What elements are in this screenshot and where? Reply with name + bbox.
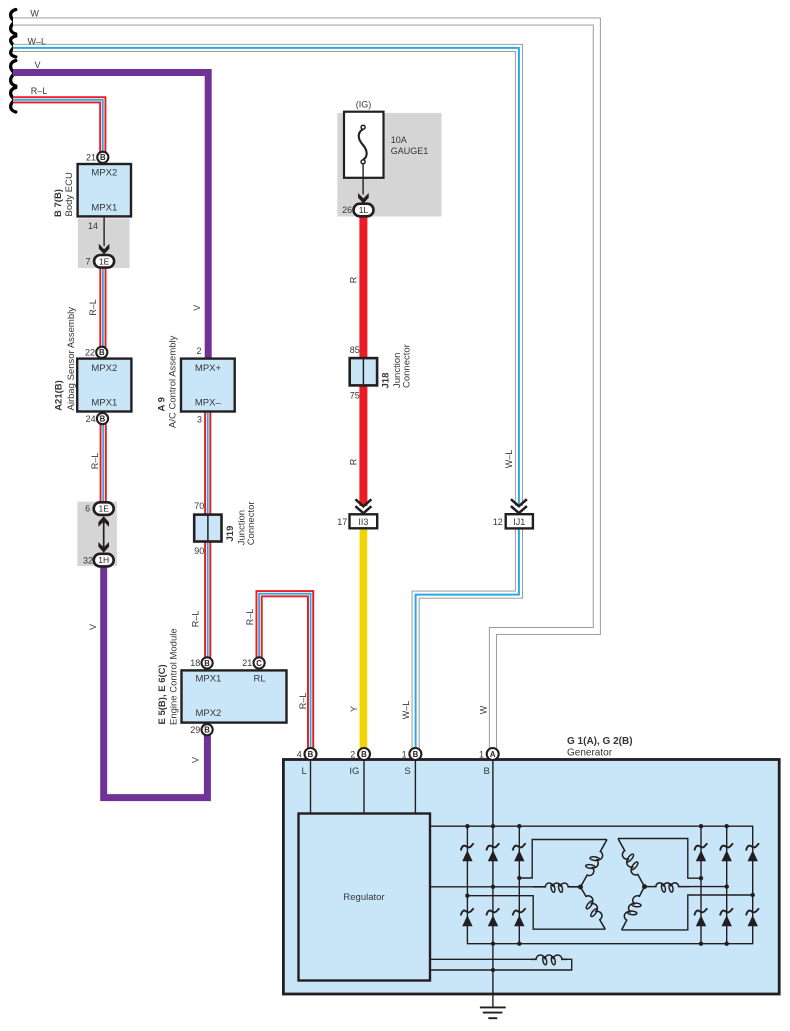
- svg-text:J19: J19: [225, 526, 236, 542]
- svg-text:E 5(B), E 6(C): E 5(B), E 6(C): [157, 664, 168, 724]
- svg-text:Airbag Sensor Assembly: Airbag Sensor Assembly: [66, 307, 77, 411]
- svg-text:10A: 10A: [391, 135, 407, 145]
- svg-text:7: 7: [85, 256, 90, 266]
- svg-text:A 9: A 9: [156, 397, 167, 411]
- svg-text:1E: 1E: [98, 504, 109, 514]
- svg-text:W: W: [479, 705, 489, 714]
- svg-text:24: 24: [86, 414, 96, 424]
- svg-text:IJ1: IJ1: [513, 517, 525, 527]
- svg-text:W–L: W–L: [28, 36, 47, 46]
- svg-text:1: 1: [479, 749, 484, 759]
- svg-text:J18: J18: [381, 373, 392, 389]
- svg-text:21: 21: [86, 153, 96, 163]
- svg-text:22: 22: [85, 348, 95, 358]
- svg-text:85: 85: [350, 345, 360, 355]
- svg-text:32: 32: [83, 555, 93, 565]
- svg-text:W–L: W–L: [401, 701, 411, 720]
- svg-text:A/C Control Assembly: A/C Control Assembly: [167, 335, 178, 428]
- svg-text:V: V: [34, 60, 40, 70]
- svg-text:MPX2: MPX2: [91, 168, 117, 179]
- svg-text:B: B: [100, 153, 106, 162]
- svg-text:1: 1: [402, 749, 407, 759]
- svg-text:MPX2: MPX2: [195, 708, 221, 719]
- svg-text:II3: II3: [358, 517, 368, 527]
- svg-text:Y: Y: [349, 706, 359, 712]
- svg-text:MPX1: MPX1: [91, 397, 117, 408]
- svg-text:R–L: R–L: [245, 609, 255, 626]
- svg-text:A: A: [490, 750, 496, 759]
- svg-text:Regulator: Regulator: [343, 892, 384, 903]
- svg-text:1L: 1L: [359, 205, 369, 215]
- svg-text:1E: 1E: [99, 256, 110, 266]
- svg-text:MPX1: MPX1: [91, 203, 117, 214]
- svg-text:MPX–: MPX–: [195, 397, 222, 408]
- svg-text:B: B: [100, 415, 106, 424]
- svg-text:W: W: [30, 9, 39, 19]
- svg-text:V: V: [192, 305, 202, 311]
- svg-text:18: 18: [190, 658, 200, 668]
- svg-text:4: 4: [297, 749, 302, 759]
- svg-text:G 1(A), G 2(B): G 1(A), G 2(B): [567, 736, 633, 747]
- svg-text:1H: 1H: [98, 555, 109, 565]
- svg-text:B: B: [308, 750, 314, 759]
- svg-text:R–L: R–L: [88, 299, 98, 316]
- svg-text:MPX+: MPX+: [195, 363, 222, 374]
- svg-text:B 7(B): B 7(B): [53, 189, 64, 217]
- svg-text:75: 75: [350, 390, 360, 400]
- svg-text:S: S: [404, 766, 410, 777]
- svg-text:17: 17: [337, 517, 347, 527]
- svg-text:14: 14: [88, 221, 98, 231]
- svg-text:Generator: Generator: [567, 748, 613, 759]
- svg-text:Engine Control Module: Engine Control Module: [169, 628, 180, 725]
- svg-text:A21(B): A21(B): [54, 380, 65, 411]
- svg-text:B: B: [484, 766, 490, 777]
- svg-text:Body ECU: Body ECU: [64, 172, 75, 216]
- svg-text:GAUGE1: GAUGE1: [391, 146, 429, 156]
- svg-text:(IG): (IG): [356, 100, 372, 110]
- svg-text:R–L: R–L: [90, 453, 100, 470]
- svg-text:29: 29: [190, 725, 200, 735]
- svg-text:B: B: [204, 726, 210, 735]
- svg-text:MPX1: MPX1: [195, 674, 221, 685]
- svg-text:R–L: R–L: [31, 86, 48, 96]
- svg-text:W–L: W–L: [504, 450, 514, 469]
- svg-text:6: 6: [85, 504, 90, 514]
- svg-text:3: 3: [197, 414, 202, 424]
- svg-text:MPX2: MPX2: [91, 363, 117, 374]
- svg-text:90: 90: [194, 546, 204, 556]
- svg-text:B: B: [99, 348, 105, 357]
- svg-text:2: 2: [196, 346, 201, 356]
- svg-text:B: B: [413, 750, 419, 759]
- svg-text:B: B: [361, 750, 367, 759]
- svg-text:V: V: [191, 757, 201, 763]
- svg-text:2: 2: [350, 749, 355, 759]
- svg-text:RL: RL: [254, 674, 266, 685]
- svg-text:70: 70: [194, 501, 204, 511]
- svg-text:12: 12: [493, 517, 503, 527]
- svg-text:V: V: [88, 624, 98, 630]
- svg-text:Connector: Connector: [246, 501, 257, 545]
- svg-text:IG: IG: [349, 766, 359, 777]
- svg-text:L: L: [301, 766, 306, 777]
- svg-text:R–L: R–L: [191, 611, 201, 628]
- svg-text:Connector: Connector: [402, 344, 413, 388]
- svg-text:B: B: [204, 659, 210, 668]
- svg-text:R: R: [348, 458, 358, 465]
- svg-text:R: R: [348, 276, 358, 283]
- svg-text:21: 21: [242, 658, 252, 668]
- svg-text:R–L: R–L: [298, 693, 308, 710]
- svg-text:C: C: [256, 659, 262, 668]
- svg-text:26: 26: [342, 205, 352, 215]
